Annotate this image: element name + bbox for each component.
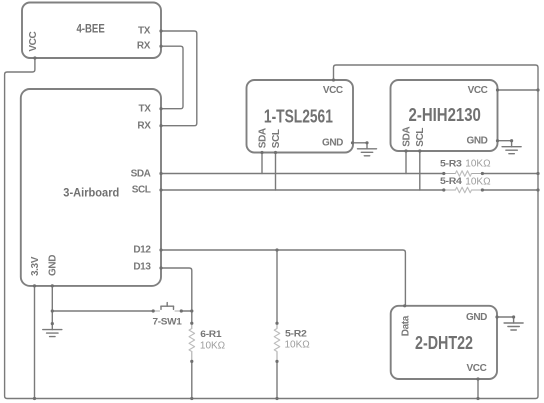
svg-text:SCL: SCL [415, 128, 426, 147]
svg-text:3-Airboard: 3-Airboard [63, 188, 119, 200]
svg-text:TX: TX [139, 103, 152, 114]
svg-text:SDA: SDA [131, 168, 151, 179]
svg-text:VCC: VCC [323, 85, 343, 96]
svg-text:TX: TX [138, 26, 151, 37]
svg-text:SCL: SCL [132, 184, 151, 195]
svg-text:GND: GND [322, 138, 343, 149]
svg-text:GND: GND [466, 136, 487, 147]
svg-text:VCC: VCC [467, 363, 487, 374]
svg-text:10KΩ: 10KΩ [200, 341, 226, 352]
svg-text:RX: RX [137, 41, 151, 52]
svg-text:5-R4: 5-R4 [440, 176, 463, 187]
svg-text:5-R3: 5-R3 [440, 158, 462, 169]
svg-text:5-R2: 5-R2 [285, 329, 307, 340]
svg-text:10KΩ: 10KΩ [465, 159, 491, 170]
svg-text:4-BEE: 4-BEE [76, 24, 105, 36]
svg-text:RX: RX [137, 120, 151, 131]
svg-text:7-SW1: 7-SW1 [153, 316, 183, 327]
svg-text:VCC: VCC [468, 85, 488, 96]
svg-text:2-HIH2130: 2-HIH2130 [409, 105, 481, 125]
svg-text:VCC: VCC [28, 32, 39, 52]
svg-text:Data: Data [400, 315, 411, 336]
svg-text:GND: GND [48, 255, 59, 276]
svg-text:10KΩ: 10KΩ [465, 176, 491, 187]
svg-text:GND: GND [466, 312, 487, 323]
svg-text:6-R1: 6-R1 [200, 329, 222, 340]
svg-text:3.3V: 3.3V [30, 256, 41, 276]
svg-text:1-TSL2561: 1-TSL2561 [264, 107, 333, 127]
svg-text:10KΩ: 10KΩ [285, 340, 311, 351]
svg-text:D12: D12 [133, 245, 151, 256]
svg-text:2-DHT22: 2-DHT22 [415, 333, 473, 353]
svg-text:D13: D13 [133, 262, 151, 273]
svg-text:SCL: SCL [271, 129, 282, 148]
svg-text:SDA: SDA [257, 128, 268, 148]
svg-text:SDA: SDA [401, 127, 412, 147]
